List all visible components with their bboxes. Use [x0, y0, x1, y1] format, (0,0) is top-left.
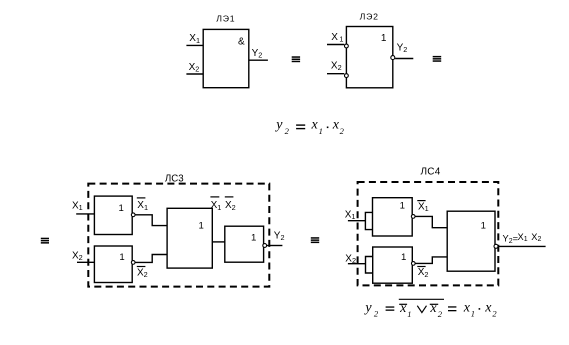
formula: bar over x2: [430, 303, 438, 305]
overbar of /X1 label: [137, 197, 146, 199]
wire input X1 to LC3: [76, 213, 94, 215]
svg-text:X2: X2: [331, 61, 342, 73]
wire output Y2 of LC4: [498, 245, 545, 247]
gate U9 function symbol 1: [481, 220, 486, 231]
inversion bubble U2 output: [391, 56, 395, 60]
overbar of /X2 on U8 output: [417, 266, 425, 268]
svg-text:X1: X1: [345, 209, 356, 221]
equivalence symbol 4: [311, 237, 319, 243]
formula: OR symbol: [417, 306, 426, 313]
svg-text:X2: X2: [189, 62, 200, 74]
input tie bracket of U7: [365, 212, 372, 229]
label X2 (LC4 input): [345, 253, 356, 265]
overbar of /X1 above U5: [210, 196, 219, 198]
block LC3 label ЛС3: [165, 173, 184, 184]
inversion bubble U6 output: [263, 244, 267, 248]
svg-text:x: x: [463, 300, 471, 315]
svg-text:1: 1: [407, 309, 411, 319]
block LC3 dashed boundary: [88, 184, 269, 287]
svg-text:1: 1: [251, 233, 256, 244]
label /X2 on U8 output: [418, 267, 429, 279]
label X1 (LC3 input): [72, 200, 83, 212]
formula y2 = not(/x1 v /x2) = x1 · x2: [363, 300, 497, 319]
wire output Y2 of LC3: [267, 245, 283, 247]
wire input X1 to LC4: [348, 220, 366, 222]
svg-text:x: x: [399, 301, 407, 316]
gate U2 function symbol 1: [381, 33, 387, 44]
gate U5 function symbol 1: [199, 221, 204, 232]
inversion bubble U9 output: [494, 244, 498, 248]
svg-text:2: 2: [285, 126, 290, 136]
svg-text:x: x: [429, 301, 437, 316]
equivalence symbol 2: [433, 56, 442, 62]
svg-text:ЛЭ2: ЛЭ2: [360, 11, 379, 21]
inversion bubble U2 input 1: [345, 44, 349, 48]
gate U2 body (OR with inverted pins, ЛЭ2): [346, 27, 392, 88]
gate U6 function symbol 1: [251, 233, 256, 244]
gate U8 body (NOT, bottom-left of LC4): [373, 247, 413, 283]
svg-text:1: 1: [119, 252, 124, 263]
label Y2=X1X2 (LC4 output): [503, 232, 542, 245]
svg-text:2: 2: [438, 309, 443, 319]
svg-text:1: 1: [381, 33, 387, 44]
label X1 (U2 input): [331, 32, 343, 44]
svg-text:X1: X1: [331, 32, 343, 44]
svg-text:y: y: [274, 118, 283, 133]
wire output Y2 of U2: [395, 58, 413, 60]
label Y2 (LC3 output): [274, 230, 285, 242]
svg-text:1: 1: [471, 308, 475, 318]
svg-text:2: 2: [340, 126, 345, 136]
svg-text:1: 1: [400, 201, 405, 212]
label X2 (U1 input): [189, 62, 200, 74]
inversion bubble U2 input 2: [345, 74, 349, 78]
label X1 (U1 input): [189, 33, 200, 45]
formula y2 = x1 · x2: [274, 118, 344, 136]
svg-text:X2: X2: [72, 251, 83, 263]
overbar of /X2 above U5: [225, 196, 234, 198]
svg-text:x: x: [311, 118, 319, 133]
inversion bubble U7 output: [411, 215, 415, 219]
gate U5 body (OR, middle of LC3): [167, 208, 212, 268]
wire U8 output to U9 input: [415, 257, 447, 264]
wire input X1 to U2: [327, 44, 344, 46]
inversion bubble U8 output: [411, 262, 415, 266]
svg-text:Y2: Y2: [397, 42, 408, 54]
gate U4 function symbol 1: [119, 252, 124, 263]
formula: bar over x1: [399, 303, 407, 305]
gate U1 label ЛЭ1: [216, 13, 235, 23]
svg-text:x: x: [332, 118, 340, 133]
inversion bubble U4 output: [131, 261, 135, 265]
label /X1 above U5: [211, 200, 222, 212]
label X2 (LC3 input): [72, 251, 83, 263]
gate U9 body (OR, right of LC4): [447, 211, 495, 271]
wire U5 output to U6 input: [212, 241, 225, 243]
svg-text:2: 2: [492, 308, 497, 318]
overbar of /X2 label: [137, 266, 146, 268]
svg-text:1: 1: [199, 221, 204, 232]
label /X2 above U5: [225, 200, 236, 212]
block LC4 dashed boundary: [358, 182, 499, 285]
gate U4 body (NOT, bottom-left of LC3): [94, 246, 132, 283]
overbar of /X1 on U7 output: [417, 200, 425, 202]
svg-text:2: 2: [374, 308, 379, 318]
gate U8 function symbol 1: [401, 252, 406, 263]
label /X2 on U4 output: [137, 267, 148, 279]
svg-text:Y2: Y2: [252, 48, 263, 60]
wire input X1 to U1: [186, 44, 203, 46]
wire input X2 to LC3: [77, 261, 94, 263]
svg-text:X2: X2: [345, 253, 356, 265]
equivalence symbol 1: [292, 56, 300, 62]
gate U3 body (NOT, top-left of LC3): [94, 196, 132, 234]
label X1 (LC4 input): [345, 209, 356, 221]
equivalence symbol 3: [41, 238, 49, 244]
svg-text:y: y: [363, 300, 372, 315]
gate U2 label ЛЭ2: [360, 11, 379, 21]
gate U6 body (output NOT of LC3): [225, 226, 264, 262]
svg-text:X2: X2: [137, 267, 148, 279]
svg-text:Y2: Y2: [274, 230, 285, 242]
wire U3 output to U5 input: [135, 215, 167, 226]
svg-text:X1: X1: [72, 200, 83, 212]
input tie bracket of U8: [366, 257, 373, 274]
svg-text:X1: X1: [418, 202, 429, 214]
label /X1 on U7 output: [418, 202, 429, 214]
wire input X2 to U2: [327, 73, 344, 75]
svg-text:&: &: [238, 36, 245, 47]
svg-text:1: 1: [481, 220, 486, 231]
wire U4 output to U5 input: [135, 255, 167, 263]
wire U7 output to U9 input: [415, 216, 447, 227]
svg-text:x: x: [484, 300, 492, 315]
gate U1 function symbol &: [238, 36, 245, 47]
svg-text:1: 1: [401, 252, 406, 263]
label X2 (U2 input): [331, 61, 342, 73]
label Y2 (U1 output): [252, 48, 263, 60]
svg-text:X1: X1: [211, 200, 222, 212]
label /X1 on U3 output: [137, 200, 148, 212]
inversion bubble U3 output: [131, 213, 135, 217]
wire output Y2 of U1: [249, 59, 268, 61]
svg-text:1: 1: [319, 126, 323, 136]
gate U3 function symbol 1: [119, 203, 124, 214]
formula: outer overline: [399, 298, 444, 300]
gate U1 body (AND, ЛЭ1): [203, 29, 249, 87]
svg-text:X2: X2: [418, 267, 429, 279]
label Y2 (U2 output): [397, 42, 408, 54]
svg-text:ЛС4: ЛС4: [420, 167, 440, 178]
svg-text:X1: X1: [189, 33, 200, 45]
gate U7 body (NOT, top-left of LC4): [373, 198, 413, 236]
svg-text:X1: X1: [137, 200, 148, 212]
block LC4 label ЛС4: [420, 167, 440, 178]
wire input X2 to U1: [186, 73, 203, 75]
svg-text:1: 1: [119, 203, 124, 214]
wire input X2 to LC4: [348, 263, 366, 265]
gate U7 function symbol 1: [400, 201, 405, 212]
svg-text:ЛЭ1: ЛЭ1: [216, 13, 235, 23]
svg-text:X2: X2: [225, 200, 236, 212]
